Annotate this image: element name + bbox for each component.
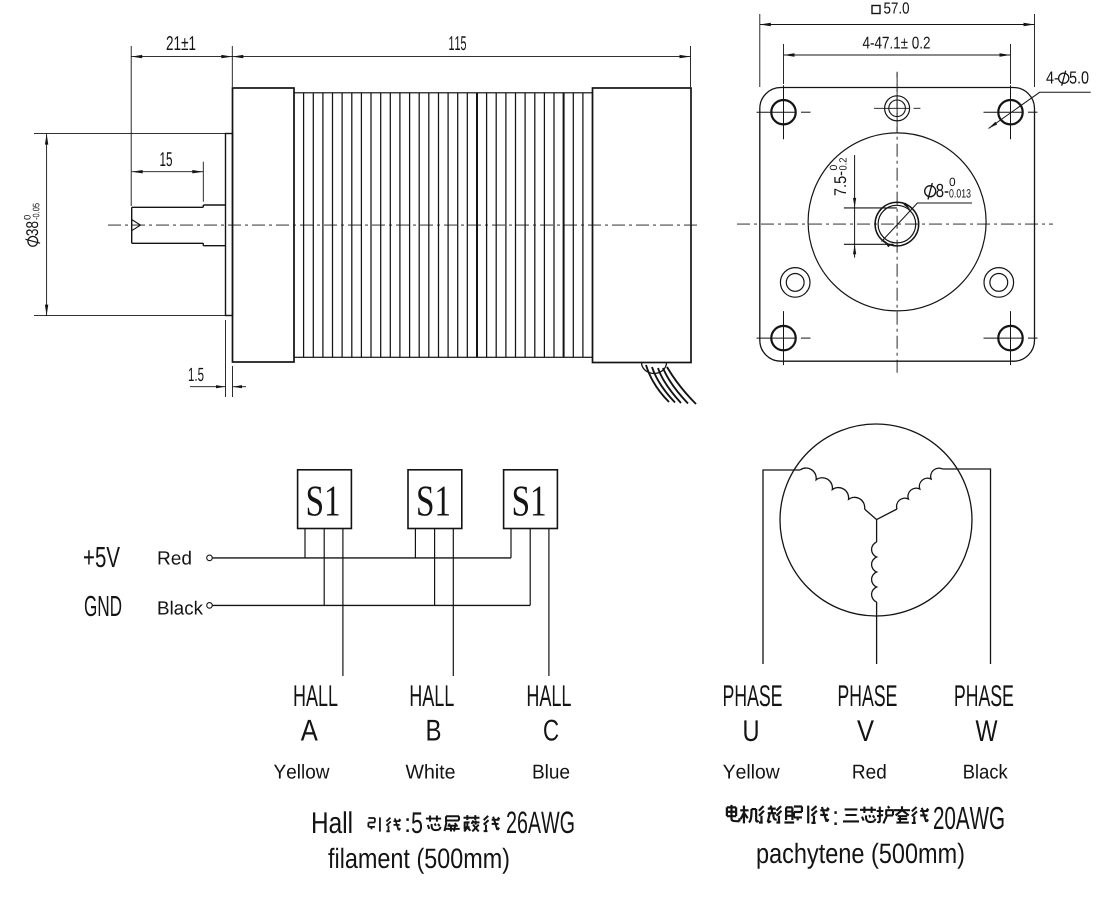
label PHASE U <box>724 685 782 706</box>
hall sensor box S1 sensor C <box>504 470 558 529</box>
side view: motor outline group <box>24 36 700 404</box>
counterbored hole left <box>780 268 810 298</box>
label GND <box>85 596 121 617</box>
label Yellow (U) <box>723 764 780 779</box>
phase U coil <box>800 468 865 509</box>
GND black bus wire <box>213 604 531 606</box>
label HALL B <box>411 685 454 706</box>
stator rib section outline <box>294 93 593 358</box>
hall sensor box S1 sensor A <box>298 470 352 529</box>
hanzi 三芯护套线 <box>843 809 859 821</box>
bolt hole bottom-right <box>998 326 1022 350</box>
front view: flange group <box>737 2 1091 376</box>
shaft hole phi8 inner <box>878 205 916 243</box>
mounting boss plate (phi38 x 1.5) <box>226 134 233 316</box>
label PHASE W <box>955 685 1013 706</box>
label Black (W) <box>964 764 1008 779</box>
label PHASE V <box>839 685 897 706</box>
legs of sensor 2 <box>414 529 416 558</box>
hanzi 引线 <box>368 817 380 831</box>
leader 4-phi5.0 <box>989 92 1091 128</box>
wire grommet arc on rear housing <box>642 363 667 374</box>
GND terminal <box>207 603 213 609</box>
star point to U coil <box>865 509 877 519</box>
motor winding (wye) diagram <box>723 424 1013 779</box>
phase W lead <box>943 469 991 664</box>
shaft flat tangent lines (7.5 dim) <box>844 207 897 209</box>
tapped hole top-center outer <box>885 96 910 121</box>
dimension 21±1 <box>130 46 132 206</box>
label HALL A <box>295 685 338 706</box>
motor shaft <box>132 205 226 246</box>
caption pachytene <box>758 843 964 869</box>
label HALL C <box>528 685 571 706</box>
dimension square57 <box>759 14 761 87</box>
hall sensor wiring diagram <box>84 470 571 779</box>
label White <box>406 764 455 779</box>
legs of sensor 1 <box>304 529 306 558</box>
label +5V <box>84 547 120 567</box>
phase V lead <box>876 602 878 664</box>
hall sensor box S1 sensor B <box>408 470 462 529</box>
caption filament <box>328 848 508 874</box>
front end housing <box>233 88 295 362</box>
counterbored hole right <box>984 268 1014 298</box>
dimension 1.5 (boss thickness) <box>225 320 227 397</box>
dimension 7.5-0.2 (shaft flat) <box>854 155 856 258</box>
centerline (horizontal axis of motor) <box>108 224 700 226</box>
label Blue <box>534 764 570 779</box>
bolt hole bottom-left <box>771 326 795 350</box>
lead wires bundle <box>646 365 669 402</box>
vertical centerline <box>896 72 898 376</box>
caption motor winding wires <box>727 805 1004 869</box>
dimension 15 (shaft length) <box>202 162 204 202</box>
phase W coil <box>897 468 943 509</box>
hanzi 芯屏蔽线 <box>426 816 441 831</box>
shaft center-hole mark <box>132 220 141 231</box>
dimension 4-47.1±0.2 <box>783 44 785 84</box>
bolt hole top-left <box>771 100 795 124</box>
label Red <box>159 551 191 565</box>
tapped hole top-center inner <box>889 100 906 117</box>
star point to W coil <box>877 509 897 520</box>
label Yellow <box>274 764 330 779</box>
label Black <box>159 601 204 615</box>
flange square outline <box>760 88 1035 362</box>
label Red (V) <box>853 764 885 779</box>
+5V terminal <box>207 555 213 561</box>
caption hall lead wires <box>313 811 574 874</box>
phase V coil <box>872 542 877 602</box>
leader phi8-0.013 <box>882 203 973 242</box>
hanzi 电机绕组引线 <box>727 805 740 821</box>
dimension 115 <box>231 46 233 87</box>
legs of sensor 3 <box>510 529 512 558</box>
dimension phi38 boss diameter <box>34 133 227 135</box>
+5V red bus wire <box>213 557 512 559</box>
pilot boss circle phi38 <box>808 133 986 311</box>
bolt hole top-right <box>998 100 1022 124</box>
horizontal centerline <box>737 223 1053 225</box>
stator cooling ribs <box>303 93 305 358</box>
shaft hole phi8 outer <box>875 202 919 246</box>
stator circle <box>780 424 972 616</box>
phase U lead <box>763 470 800 664</box>
star point to V coil <box>876 520 878 542</box>
rear end housing <box>593 88 692 363</box>
